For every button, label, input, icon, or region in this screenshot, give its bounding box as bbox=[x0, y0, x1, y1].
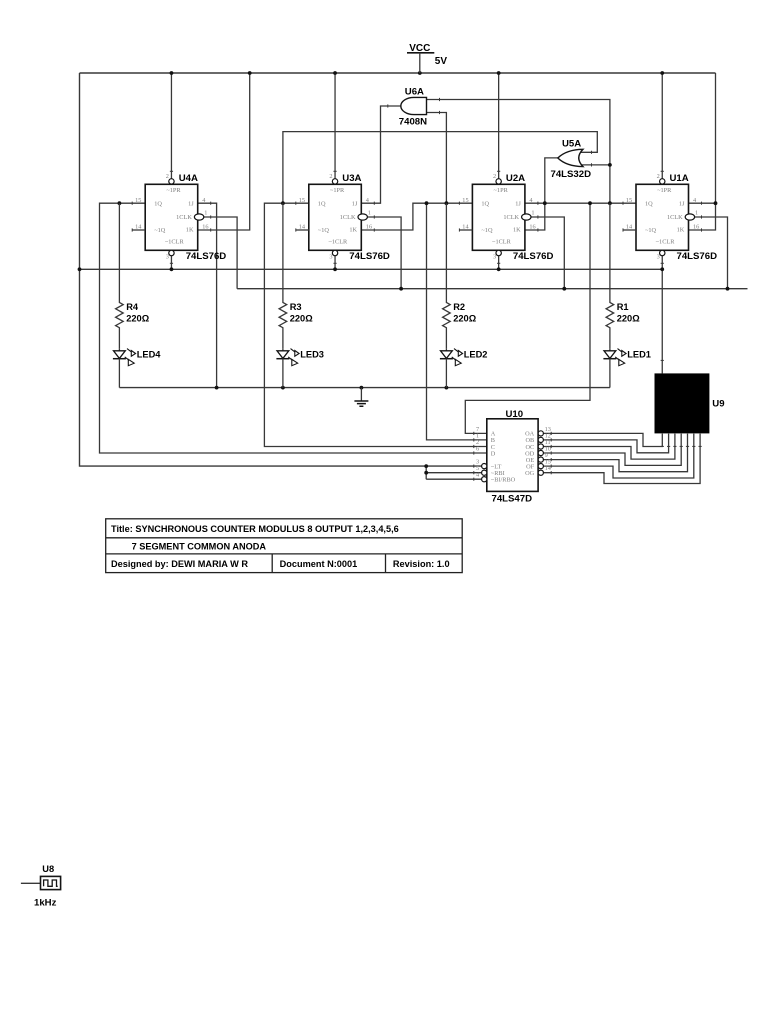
svg-text:~1Q: ~1Q bbox=[481, 227, 493, 234]
svg-text:3: 3 bbox=[329, 253, 332, 260]
svg-text:LED1: LED1 bbox=[627, 349, 651, 359]
junction bbox=[78, 267, 82, 271]
svg-text:~1Q: ~1Q bbox=[318, 227, 330, 234]
svg-text:1K: 1K bbox=[186, 227, 194, 234]
svg-text:1CLK: 1CLK bbox=[503, 214, 519, 221]
wire U4A clock bbox=[203, 217, 237, 289]
svg-text:16: 16 bbox=[366, 223, 372, 230]
junction bbox=[170, 71, 174, 75]
wire U4A ~1CLR drop bbox=[170, 256, 172, 270]
junction bbox=[425, 201, 429, 205]
svg-text:5V: 5V bbox=[435, 56, 448, 67]
svg-text:2: 2 bbox=[657, 173, 660, 180]
svg-text:3: 3 bbox=[493, 253, 496, 260]
svg-text:1J: 1J bbox=[515, 201, 521, 208]
svg-text:D: D bbox=[491, 450, 496, 457]
wire U1A ~1PR riser to VCC bbox=[661, 73, 663, 179]
svg-text:14: 14 bbox=[299, 223, 306, 230]
svg-text:74LS76D: 74LS76D bbox=[677, 251, 718, 262]
wire U2A 1Q to U6A input B bbox=[427, 113, 447, 204]
AND gate U6A 7408N bbox=[388, 86, 440, 127]
flip-flop U2A 74LS76D bbox=[459, 171, 553, 263]
resistor R2 220 ohm bbox=[443, 203, 477, 348]
svg-text:1Q: 1Q bbox=[481, 201, 489, 208]
svg-text:16: 16 bbox=[529, 223, 535, 230]
resistor R1 220 ohm bbox=[606, 203, 640, 348]
svg-text:1Q: 1Q bbox=[154, 201, 162, 208]
svg-text:U5A: U5A bbox=[562, 139, 581, 150]
flip-flop U4A 74LS76D bbox=[132, 171, 226, 263]
wire U3A 1Q to U5A input 1 bbox=[283, 132, 597, 204]
svg-text:220Ω: 220Ω bbox=[290, 313, 314, 323]
svg-text:74LS32D: 74LS32D bbox=[551, 169, 592, 180]
svg-text:Title: SYNCHRONOUS COUNTER MOD: Title: SYNCHRONOUS COUNTER MODULUS 8 OUT… bbox=[111, 524, 399, 534]
junction bbox=[418, 71, 422, 75]
svg-text:U8: U8 bbox=[42, 864, 54, 874]
svg-text:15: 15 bbox=[135, 197, 141, 204]
svg-text:~1CLR: ~1CLR bbox=[328, 239, 348, 246]
svg-text:~1PR: ~1PR bbox=[494, 187, 509, 194]
svg-text:~1CLR: ~1CLR bbox=[492, 239, 512, 246]
svg-text:~1Q: ~1Q bbox=[645, 227, 657, 234]
svg-text:1J: 1J bbox=[679, 201, 685, 208]
svg-text:R4: R4 bbox=[126, 302, 139, 312]
ground bbox=[354, 388, 368, 407]
svg-text:~1PR: ~1PR bbox=[657, 187, 672, 194]
power VCC 5V bbox=[407, 43, 447, 73]
junction bbox=[333, 71, 337, 75]
svg-text:220Ω: 220Ω bbox=[617, 313, 641, 323]
wire U4A 1J to ground bus bbox=[198, 203, 217, 387]
svg-text:74LS47D: 74LS47D bbox=[492, 493, 533, 504]
svg-text:1kHz: 1kHz bbox=[34, 897, 57, 908]
junction bbox=[248, 71, 252, 75]
junction bbox=[445, 201, 449, 205]
wire U3A ~1CLR drop bbox=[334, 256, 336, 270]
svg-text:220Ω: 220Ω bbox=[126, 313, 150, 323]
svg-text:6: 6 bbox=[476, 445, 479, 452]
svg-text:7408N: 7408N bbox=[399, 116, 427, 127]
junction bbox=[608, 201, 612, 205]
svg-text:3: 3 bbox=[657, 253, 660, 260]
wire U2A-U1A Q row bbox=[525, 202, 636, 204]
junction bbox=[281, 201, 285, 205]
svg-text:Revision: 1.0: Revision: 1.0 bbox=[393, 559, 450, 569]
svg-text:74LS76D: 74LS76D bbox=[186, 251, 227, 262]
wire U1A ~1CLR drop bbox=[661, 256, 663, 374]
svg-text:3: 3 bbox=[166, 253, 169, 260]
wire U4A 1K to VCC rail bbox=[198, 73, 250, 230]
svg-text:~1PR: ~1PR bbox=[330, 187, 345, 194]
wire U1A clock bbox=[694, 217, 727, 289]
svg-text:14: 14 bbox=[462, 223, 469, 230]
svg-text:1: 1 bbox=[695, 210, 698, 217]
junction bbox=[170, 267, 174, 271]
wire VCC left rail to U10 ~LT bbox=[80, 73, 482, 466]
junction bbox=[399, 287, 403, 291]
svg-text:14: 14 bbox=[135, 223, 142, 230]
flip-flop U1A 74LS76D bbox=[623, 171, 717, 263]
wire U6A output to U3A 1J bbox=[361, 106, 401, 203]
svg-text:74LS76D: 74LS76D bbox=[513, 251, 554, 262]
LED LED2 bbox=[440, 348, 488, 387]
svg-text:220Ω: 220Ω bbox=[453, 313, 477, 323]
svg-text:15: 15 bbox=[462, 197, 468, 204]
wire U10 OC to U9 pin 3 bbox=[543, 434, 675, 460]
wire U1A 1Q to U6A input A bbox=[427, 100, 610, 204]
svg-text:1J: 1J bbox=[188, 201, 194, 208]
svg-text:1K: 1K bbox=[349, 227, 357, 234]
svg-text:1CLK: 1CLK bbox=[667, 214, 683, 221]
LED LED1 bbox=[603, 348, 651, 387]
svg-text:1Q: 1Q bbox=[318, 201, 326, 208]
wire U5A input 2 stub bbox=[579, 164, 610, 166]
svg-text:~1PR: ~1PR bbox=[166, 187, 181, 194]
svg-text:VCC: VCC bbox=[409, 43, 430, 54]
svg-text:U3A: U3A bbox=[342, 173, 361, 184]
wire U4A ~1PR riser to VCC bbox=[170, 73, 172, 179]
wire U5A output to U2A J/K bbox=[525, 158, 559, 230]
svg-text:R3: R3 bbox=[290, 302, 302, 312]
wire VCC rail bbox=[80, 72, 716, 74]
wire U2A 1Q to U10 B input bbox=[427, 203, 487, 440]
LED LED4 bbox=[113, 348, 161, 387]
svg-text:2: 2 bbox=[493, 173, 496, 180]
wire preset/clear bus bbox=[80, 268, 663, 270]
wire U2A ~1CLR drop bbox=[498, 256, 500, 270]
svg-text:2: 2 bbox=[329, 173, 332, 180]
flip-flop U3A 74LS76D bbox=[296, 171, 390, 263]
svg-text:OG: OG bbox=[525, 470, 535, 477]
resistor R4 220 ohm bbox=[116, 203, 150, 348]
wire U8 clock output stub bbox=[21, 882, 41, 884]
svg-text:1CLK: 1CLK bbox=[176, 214, 192, 221]
junction bbox=[497, 71, 501, 75]
wire U1A 1J/1K to VCC bbox=[689, 73, 716, 230]
svg-text:14: 14 bbox=[626, 223, 633, 230]
svg-text:1Q: 1Q bbox=[645, 201, 653, 208]
junction bbox=[424, 471, 428, 475]
svg-text:~BI/RBO: ~BI/RBO bbox=[491, 477, 516, 484]
svg-text:R1: R1 bbox=[617, 302, 629, 312]
svg-text:LED2: LED2 bbox=[464, 349, 488, 359]
svg-text:74LS76D: 74LS76D bbox=[349, 251, 390, 262]
junction bbox=[497, 267, 501, 271]
svg-text:16: 16 bbox=[202, 223, 208, 230]
svg-text:1K: 1K bbox=[677, 227, 685, 234]
junction bbox=[215, 386, 219, 390]
wire U3A 1K to U2A 1Q bbox=[361, 203, 472, 230]
svg-text:14: 14 bbox=[545, 465, 552, 472]
wire U4A 1Q to U10 D input bbox=[100, 203, 487, 453]
svg-text:1: 1 bbox=[368, 210, 371, 217]
svg-text:1CLK: 1CLK bbox=[340, 214, 356, 221]
wire U1A 1Q to U10 A input bbox=[465, 203, 590, 433]
wire common clock net bbox=[237, 288, 747, 290]
display U9 seven-segment common anode bbox=[655, 360, 725, 446]
svg-text:~1Q: ~1Q bbox=[154, 227, 166, 234]
svg-text:15: 15 bbox=[626, 197, 632, 204]
wire U3A ~1PR riser to VCC bbox=[334, 73, 336, 179]
junction bbox=[543, 201, 547, 205]
svg-text:Document N:0001: Document N:0001 bbox=[280, 559, 358, 569]
svg-text:7 SEGMENT COMMON ANODA: 7 SEGMENT COMMON ANODA bbox=[132, 541, 267, 551]
junction bbox=[726, 287, 730, 291]
wire U10 OE to U9 pin 5 bbox=[543, 434, 687, 472]
svg-text:16: 16 bbox=[693, 223, 699, 230]
svg-text:R2: R2 bbox=[453, 302, 465, 312]
svg-text:1: 1 bbox=[531, 210, 534, 217]
junction bbox=[118, 201, 122, 205]
svg-text:LED4: LED4 bbox=[137, 349, 162, 359]
svg-text:U2A: U2A bbox=[506, 173, 525, 184]
wire U3A clock bbox=[367, 217, 401, 289]
junction bbox=[714, 201, 718, 205]
wire LED cathode ground bus bbox=[119, 387, 610, 389]
svg-text:2: 2 bbox=[166, 173, 169, 180]
resistor R3 220 ohm bbox=[279, 203, 313, 348]
junction bbox=[445, 386, 449, 390]
wire U10 OF to U9 pin 6 bbox=[543, 434, 693, 478]
wire U10 ~LT/~RBI/~BI ties bbox=[426, 466, 482, 479]
junction bbox=[360, 386, 364, 390]
wire U10 OG to U9 pin 7 bbox=[543, 434, 700, 484]
svg-text:15: 15 bbox=[299, 197, 305, 204]
svg-text:U6A: U6A bbox=[405, 86, 424, 97]
junction bbox=[562, 287, 566, 291]
junction bbox=[333, 267, 337, 271]
clock source U8 1kHz bbox=[34, 864, 61, 908]
junction bbox=[660, 267, 664, 271]
svg-text:1: 1 bbox=[204, 210, 207, 217]
wire U2A clock bbox=[531, 217, 565, 289]
svg-text:Designed by: DEWI MARIA W R: Designed by: DEWI MARIA W R bbox=[111, 559, 248, 569]
svg-text:U1A: U1A bbox=[670, 173, 689, 184]
OR gate U5A 74LS32D bbox=[551, 139, 592, 181]
wire U10 OA to U9 pin 1 bbox=[543, 433, 662, 446]
junction bbox=[588, 201, 592, 205]
svg-text:U9: U9 bbox=[712, 398, 724, 409]
svg-text:1J: 1J bbox=[352, 201, 358, 208]
wire U10 OD to U9 pin 4 bbox=[543, 434, 681, 466]
wire U10 OB to U9 pin 2 bbox=[543, 434, 668, 453]
svg-text:~1CLR: ~1CLR bbox=[165, 239, 185, 246]
junction bbox=[424, 464, 428, 468]
wire U3A 1Q to U10 C input bbox=[264, 203, 486, 446]
decoder U10 74LS47D bbox=[474, 409, 552, 505]
svg-text:LED3: LED3 bbox=[300, 349, 324, 359]
wire U2A ~1PR riser to VCC bbox=[498, 73, 500, 179]
svg-text:~1CLR: ~1CLR bbox=[656, 239, 676, 246]
LED LED3 bbox=[276, 348, 324, 387]
junction bbox=[660, 71, 664, 75]
junction bbox=[281, 386, 285, 390]
title block bbox=[106, 519, 463, 573]
svg-text:1K: 1K bbox=[513, 227, 521, 234]
svg-text:U4A: U4A bbox=[179, 173, 198, 184]
svg-text:U10: U10 bbox=[506, 409, 524, 420]
junction bbox=[608, 163, 612, 167]
